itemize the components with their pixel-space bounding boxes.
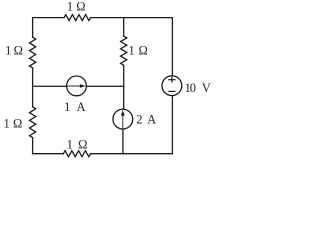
- wire bottom-right segment: [91, 153, 173, 155]
- wire right rail lower: [171, 96, 173, 154]
- svg-text:Ω: Ω: [76, 0, 85, 13]
- wire left rail lower: [32, 138, 34, 154]
- resistor R5 (middle, 1 ohm): [121, 36, 127, 65]
- svg-text:Ω: Ω: [78, 138, 87, 152]
- wire right rail upper: [171, 18, 173, 76]
- svg-text:1: 1: [67, 138, 73, 152]
- svg-text:1: 1: [5, 43, 11, 57]
- wire middle branch bottom: [122, 129, 124, 154]
- svg-text:Ω: Ω: [14, 43, 23, 57]
- label V1 value 10 V: [185, 81, 211, 95]
- svg-text:1: 1: [128, 44, 134, 58]
- svg-text:Ω: Ω: [139, 44, 148, 58]
- resistor R2 (left upper, 1 ohm): [30, 37, 36, 68]
- resistor R3 (left lower, 1 ohm): [30, 107, 36, 138]
- wire middle branch to junction: [123, 65, 125, 109]
- current source I2 circle (2 A): [113, 109, 133, 129]
- label R5 value 1 ohm: [128, 44, 147, 58]
- svg-text:0: 0: [190, 81, 196, 95]
- current source I2 arrow (points up): [121, 110, 125, 128]
- voltage source V1 plus sign: [168, 77, 175, 82]
- current source I1 arrow (points right): [68, 84, 86, 88]
- wire middle horizontal right: [86, 85, 123, 87]
- wire top-right segment: [91, 17, 173, 19]
- label I2 value 2 A: [136, 112, 156, 126]
- svg-text:2: 2: [136, 112, 142, 126]
- svg-text:V: V: [202, 81, 211, 95]
- resistor R4 (bottom, 1 ohm): [63, 151, 90, 157]
- svg-text:1: 1: [67, 0, 73, 13]
- voltage source V1 minus sign: [168, 90, 175, 92]
- svg-text:Ω: Ω: [13, 117, 22, 131]
- label R2 value 1 ohm: [5, 43, 23, 57]
- wire top-left segment: [33, 17, 65, 19]
- label R3 value 1 ohm: [3, 117, 22, 131]
- resistor R1 (top, 1 ohm): [64, 15, 91, 21]
- svg-text:A: A: [147, 112, 156, 126]
- label R4 value 1 ohm: [67, 138, 88, 152]
- wire left rail upper: [32, 18, 34, 38]
- label I1 value 1 A: [64, 100, 85, 114]
- current source I1 circle (1 A): [67, 76, 87, 96]
- wire left rail middle: [32, 68, 34, 107]
- wire middle branch top: [123, 18, 125, 36]
- wire bottom-left segment: [33, 153, 64, 155]
- svg-text:1: 1: [3, 117, 9, 131]
- voltage source V1 circle (10 V): [162, 76, 182, 96]
- label R1 value 1 ohm: [67, 0, 86, 13]
- wire middle horizontal left: [33, 85, 67, 87]
- svg-text:1: 1: [64, 100, 70, 114]
- svg-text:A: A: [76, 100, 85, 114]
